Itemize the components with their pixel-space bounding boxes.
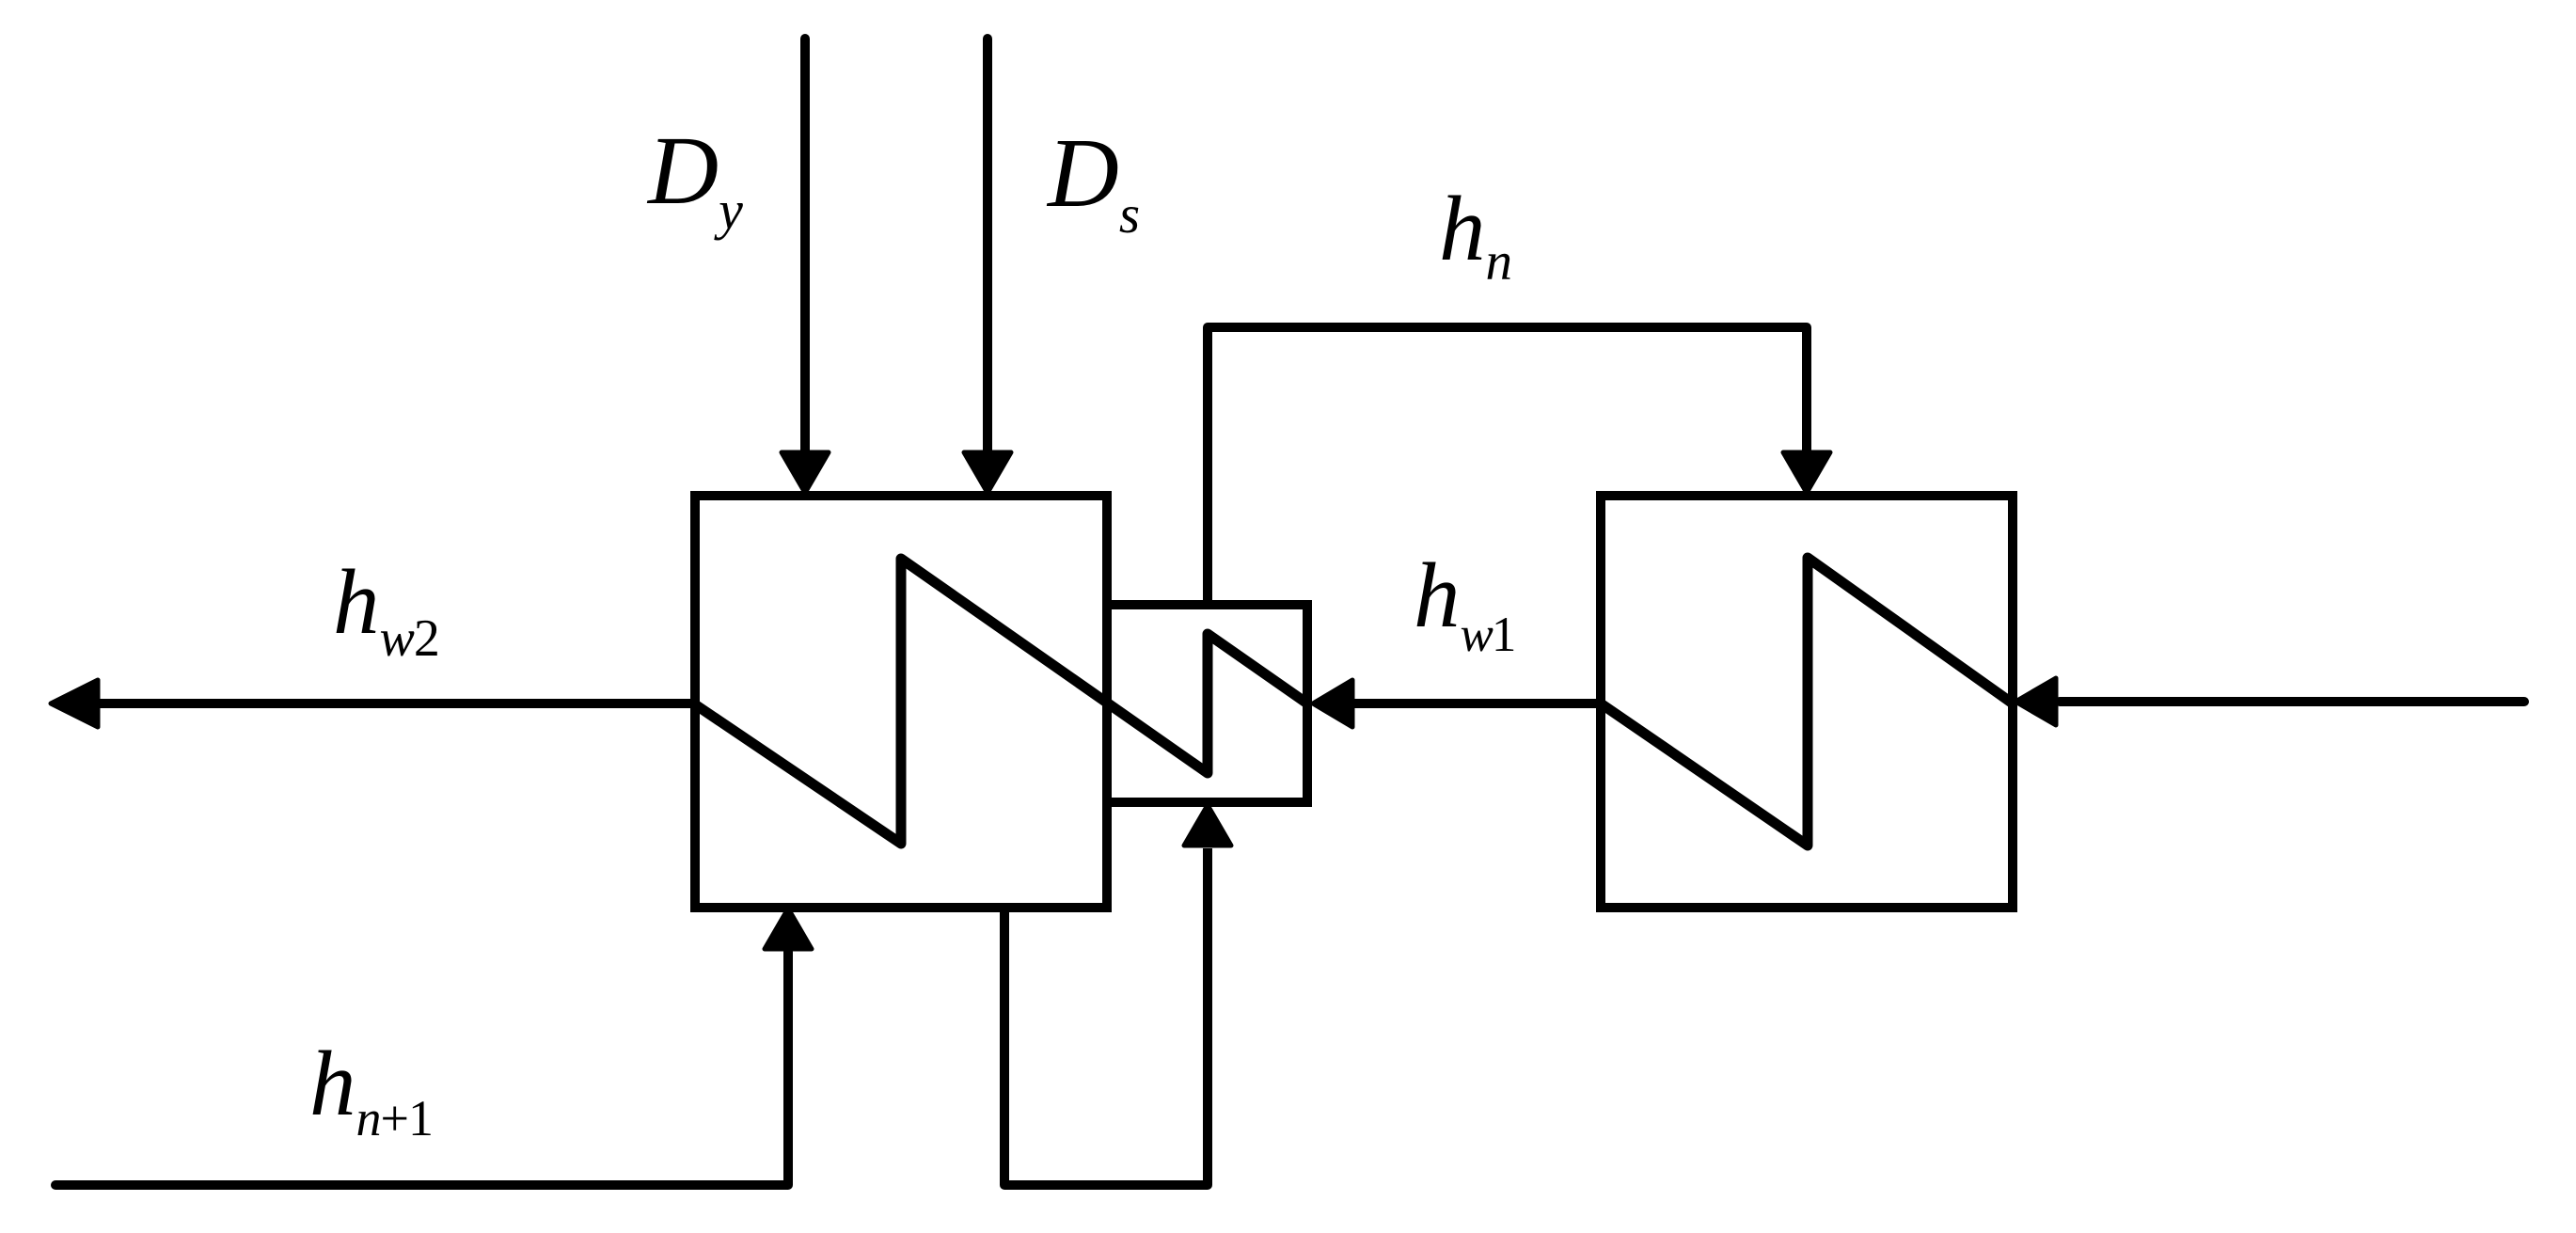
svg-text:Ds: Ds bbox=[1046, 118, 1140, 245]
svg-text:hw2: hw2 bbox=[333, 551, 439, 668]
wire: feedwater inlet line (right) bbox=[2060, 697, 2524, 706]
heat exchanger E1 coil zigzag bbox=[1601, 558, 2013, 846]
wire: drain pipe from E2 bottom to E3 bottom bbox=[1004, 848, 1208, 1185]
drain cooler box E3 (small, center) bbox=[1107, 605, 1307, 802]
heat exchanger box E1 (right, large) bbox=[1601, 496, 2013, 908]
heat exchanger box E2 (left, large) bbox=[695, 496, 1107, 908]
arrowhead: Dy into E2 top bbox=[782, 452, 829, 493]
svg-text:hn+1: hn+1 bbox=[309, 1033, 433, 1146]
arrowhead: feedwater into E1 right side bbox=[2015, 678, 2056, 725]
wire: hw2 outlet line (left) bbox=[98, 699, 700, 708]
arrowhead: Ds into E2 top bbox=[964, 452, 1011, 493]
wire: hn drain pipe from E3 top to E1 top bbox=[1208, 327, 1807, 605]
wire: hn+1 feed line bottom-left with riser bbox=[55, 952, 788, 1185]
arrowhead: hn into E1 top bbox=[1783, 452, 1830, 493]
arrowhead: drain into E3 bottom bbox=[1184, 805, 1231, 846]
svg-text:hw1: hw1 bbox=[1414, 545, 1514, 662]
wire: Dy steam inlet vertical bbox=[800, 39, 810, 455]
heat exchanger E2 coil zigzag bbox=[695, 559, 1307, 844]
wire: hw1 line between E1 and E3 bbox=[1354, 699, 1601, 708]
wire: Ds steam inlet vertical bbox=[983, 39, 992, 455]
arrowhead: hw1 into E3 right side bbox=[1313, 680, 1352, 727]
arrowhead: hn+1 into E2 bottom bbox=[765, 909, 812, 949]
svg-text:Dy: Dy bbox=[646, 117, 743, 241]
svg-text:hn: hn bbox=[1439, 178, 1512, 292]
arrowhead: hw2 pointing left bbox=[51, 680, 98, 727]
